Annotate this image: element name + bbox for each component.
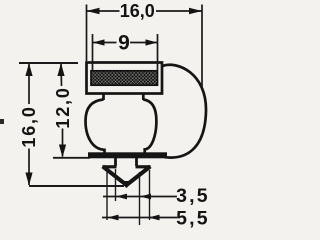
svg-text:3,5: 3,5 [176,185,210,207]
dim top 16,0 line left [87,10,120,12]
left dim 16,0 arrow up [25,63,32,76]
dart tip [121,181,133,188]
dim 9 line right [130,42,157,44]
dart barb right [137,165,149,168]
dim top 16,0 ext left [86,5,88,62]
left dim 12,0 bottom reference line [53,157,90,159]
left dim 16,0 arrow down [25,173,32,186]
magnet strip (cross-hatched) [91,71,158,85]
dim 5,5 line [102,217,177,219]
dim top 16,0 ext right [201,5,203,89]
base bar [88,152,167,158]
left dim 16,0 line upper [28,64,30,105]
bottom ext barb-right [149,170,151,220]
dim 9 ext right [157,34,159,70]
dim 9 ext left [92,34,94,70]
left dim 12,0 line lower [62,129,64,157]
dim 3,5 arrow outer [140,194,151,200]
svg-text:16,0: 16,0 [19,105,39,147]
bottom ext shaft-right [139,172,141,225]
dart barb left [104,165,115,168]
svg-text:5,5: 5,5 [176,207,210,228]
bottom ext barb-left [106,169,108,220]
neck left wall [102,94,105,101]
dim top 16,0 arrow right [189,8,202,15]
dart shaft left [114,158,117,166]
dim 9 arrow right [146,39,158,45]
dim 3,5 line [103,196,177,198]
dim 5,5 arrow inner [108,215,119,221]
dim 9 arrow left [93,39,105,45]
dim 5,5 arrow outer [149,215,160,221]
left dim 12,0 line upper [60,64,63,87]
left dims top reference line [19,62,78,64]
dart shaft right [135,158,138,166]
left dim 12,0 arrow down [59,145,66,158]
dim 3,5 arrow inner [116,194,127,200]
dim top 16,0 line right [156,10,202,12]
dim top 16,0 arrow left [87,8,100,15]
svg-text:9: 9 [118,32,130,55]
bulb right side [143,100,156,154]
loop flap right [162,65,206,158]
left dim 16,0 line lower [28,149,30,186]
scan artifact tick left edge [0,119,4,124]
neck right wall [142,94,145,101]
profile: magnet channel box [87,63,163,94]
dim 9 line left [93,42,117,44]
bulb left side [86,100,105,154]
left dim 12,0 arrow up [57,63,64,76]
left dim 16,0 bottom reference line [29,185,124,187]
svg-text:16,0: 16,0 [120,1,155,21]
svg-text:12,0: 12,0 [53,86,73,128]
bottom ext shaft-left [115,169,117,201]
